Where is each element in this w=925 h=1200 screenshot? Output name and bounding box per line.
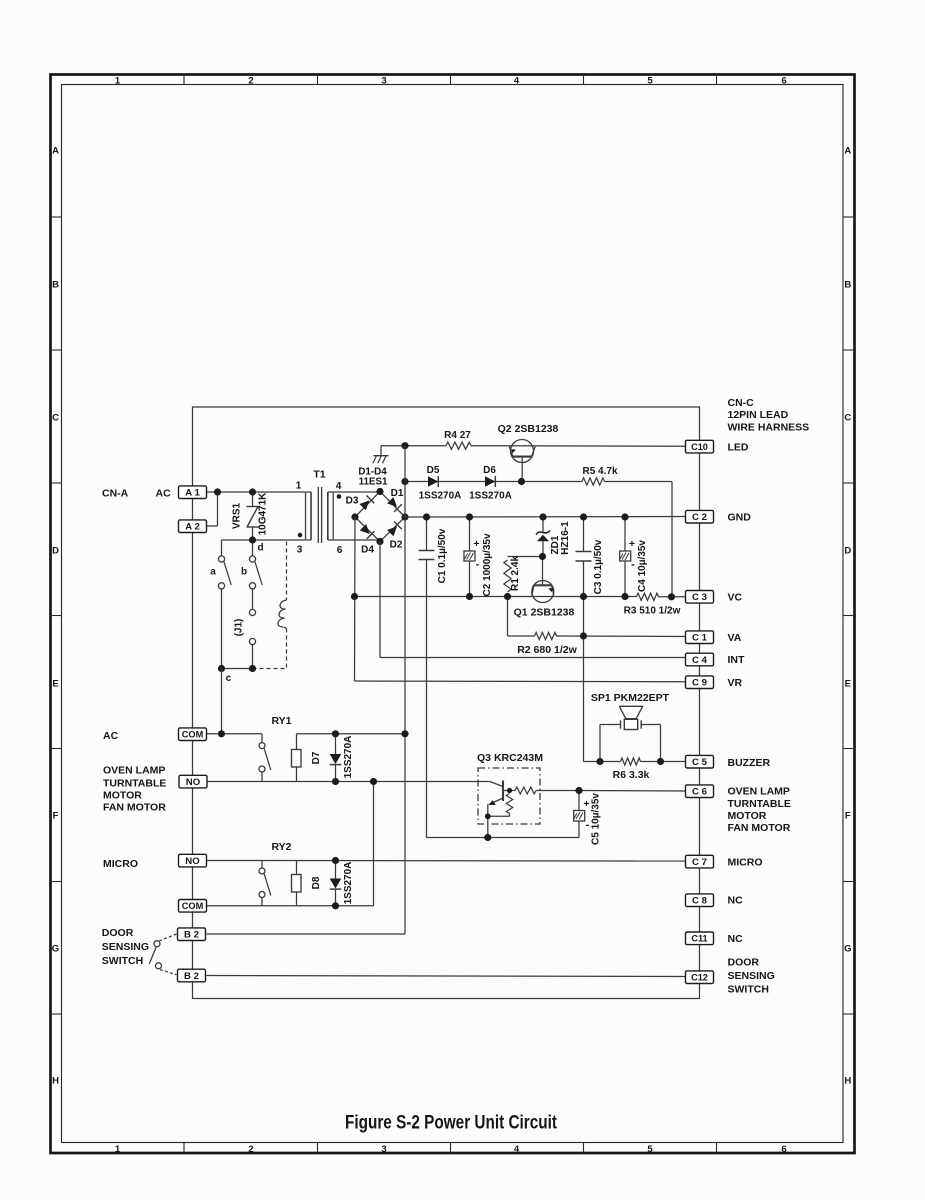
svg-text:5: 5 (647, 76, 653, 87)
svg-text:Q2 2SB1238: Q2 2SB1238 (498, 423, 559, 435)
svg-text:A: A (844, 146, 851, 157)
svg-text:C2 1000µ/35v: C2 1000µ/35v (482, 533, 493, 596)
svg-text:RY1: RY1 (271, 715, 291, 727)
svg-text:A 2: A 2 (185, 522, 200, 533)
svg-text:LED: LED (728, 441, 749, 453)
svg-text:OVEN LAMP: OVEN LAMP (103, 765, 165, 777)
svg-text:-: - (586, 819, 590, 831)
svg-text:H: H (844, 1076, 851, 1087)
svg-text:C 5: C 5 (692, 757, 708, 768)
svg-text:T1: T1 (313, 469, 325, 481)
svg-text:10G471K: 10G471K (258, 492, 269, 536)
svg-text:C3 0.1µ/50v: C3 0.1µ/50v (593, 539, 604, 594)
svg-text:HZ16-1: HZ16-1 (560, 521, 571, 555)
svg-text:b: b (241, 567, 247, 578)
svg-text:E: E (845, 679, 851, 690)
svg-text:C 1: C 1 (692, 633, 708, 644)
svg-text:DOOR: DOOR (728, 957, 760, 969)
svg-text:D2: D2 (390, 540, 403, 551)
svg-text:Figure S-2 Power Unit Circuit: Figure S-2 Power Unit Circuit (345, 1113, 558, 1134)
svg-text:C12: C12 (691, 973, 708, 983)
svg-text:+: + (583, 798, 589, 810)
svg-text:VC: VC (728, 592, 743, 604)
svg-text:a: a (210, 567, 216, 578)
svg-text:TURNTABLE: TURNTABLE (728, 798, 791, 810)
svg-text:CN-A: CN-A (102, 487, 129, 499)
svg-text:FAN MOTOR: FAN MOTOR (728, 822, 791, 834)
svg-text:C: C (844, 413, 851, 424)
svg-text:AC: AC (156, 487, 172, 499)
svg-text:c: c (226, 673, 232, 684)
svg-text:H: H (52, 1076, 59, 1087)
svg-text:SP1 PKM22EPT: SP1 PKM22EPT (591, 692, 670, 704)
svg-text:VA: VA (728, 632, 742, 644)
svg-text:R4 27: R4 27 (444, 430, 471, 441)
svg-text:F: F (53, 811, 59, 822)
svg-text:R6 3.3k: R6 3.3k (613, 769, 650, 781)
svg-text:D: D (844, 546, 851, 557)
svg-text:11ES1: 11ES1 (359, 476, 388, 487)
svg-text:Q1 2SB1238: Q1 2SB1238 (514, 607, 575, 619)
svg-text:C 3: C 3 (692, 592, 707, 603)
svg-text:6: 6 (337, 545, 343, 556)
svg-text:6: 6 (781, 1144, 786, 1155)
svg-text:4: 4 (514, 76, 520, 87)
svg-text:BUZZER: BUZZER (728, 757, 771, 769)
svg-text:INT: INT (728, 654, 746, 666)
svg-text:SWITCH: SWITCH (102, 955, 143, 967)
svg-text:C4 10µ/35v: C4 10µ/35v (637, 540, 648, 592)
svg-text:1SS270A: 1SS270A (469, 491, 512, 502)
svg-text:+: + (473, 538, 479, 550)
svg-text:C 9: C 9 (692, 678, 707, 689)
svg-text:1: 1 (115, 76, 121, 87)
svg-text:E: E (52, 679, 58, 690)
svg-text:NC: NC (728, 895, 744, 907)
svg-text:D7: D7 (311, 751, 322, 764)
svg-text:VRS1: VRS1 (232, 503, 243, 530)
svg-text:Q3 KRC243M: Q3 KRC243M (477, 752, 543, 764)
svg-text:MOTOR: MOTOR (728, 810, 767, 822)
svg-text:1SS270A: 1SS270A (343, 736, 354, 779)
svg-text:R3 510 1/2w: R3 510 1/2w (624, 606, 681, 617)
svg-text:3: 3 (381, 76, 386, 87)
svg-text:MICRO: MICRO (728, 856, 763, 868)
svg-text:COM: COM (182, 901, 204, 911)
svg-text:A: A (52, 146, 59, 157)
svg-text:D8: D8 (311, 876, 322, 889)
svg-text:C: C (52, 413, 59, 424)
svg-text:G: G (52, 944, 59, 955)
svg-text:NO: NO (185, 856, 200, 867)
svg-text:d: d (257, 543, 263, 554)
svg-text:+: + (629, 538, 635, 550)
svg-text:AC: AC (103, 730, 119, 742)
svg-text:VR: VR (728, 677, 743, 689)
svg-text:4: 4 (514, 1144, 520, 1155)
svg-text:TURNTABLE: TURNTABLE (103, 778, 166, 790)
svg-text:2: 2 (248, 1144, 253, 1155)
svg-text:(J1): (J1) (234, 619, 245, 637)
svg-text:C 7: C 7 (692, 857, 707, 868)
svg-text:3: 3 (381, 1144, 386, 1155)
svg-text:C 8: C 8 (692, 896, 708, 907)
svg-text:A 1: A 1 (185, 488, 200, 499)
svg-text:SWITCH: SWITCH (728, 984, 769, 996)
svg-text:NC: NC (728, 933, 744, 945)
svg-text:C10: C10 (691, 442, 708, 452)
svg-text:FAN MOTOR: FAN MOTOR (103, 802, 166, 814)
svg-text:1: 1 (115, 1144, 121, 1155)
svg-text:6: 6 (781, 76, 786, 87)
svg-text:G: G (844, 944, 851, 955)
svg-text:SENSING: SENSING (102, 941, 149, 953)
svg-text:R5 4.7k: R5 4.7k (582, 466, 617, 477)
svg-text:C 4: C 4 (692, 655, 708, 666)
svg-text:D4: D4 (361, 545, 374, 556)
svg-text:C 2: C 2 (692, 512, 707, 523)
svg-text:B 2: B 2 (184, 971, 199, 982)
svg-text:NO: NO (186, 777, 201, 788)
svg-text:B: B (844, 280, 851, 291)
svg-text:D5: D5 (427, 465, 440, 476)
svg-text:F: F (845, 811, 851, 822)
svg-text:-: - (476, 559, 480, 571)
svg-text:4: 4 (336, 481, 342, 492)
svg-text:1SS270A: 1SS270A (419, 491, 462, 502)
svg-text:C1 0.1µ/50v: C1 0.1µ/50v (437, 528, 448, 583)
svg-text:3: 3 (297, 545, 303, 556)
svg-text:C5 10µ/35v: C5 10µ/35v (591, 793, 602, 845)
svg-text:D: D (52, 546, 59, 557)
svg-text:D1: D1 (391, 488, 404, 499)
svg-text:R2 680 1/2w: R2 680 1/2w (517, 644, 577, 656)
svg-text:SENSING: SENSING (728, 970, 775, 982)
svg-text:-: - (631, 559, 635, 571)
svg-text:12PIN LEAD: 12PIN LEAD (728, 409, 789, 421)
svg-text:D3: D3 (346, 496, 359, 507)
svg-text:COM: COM (182, 730, 204, 740)
svg-text:1SS270A: 1SS270A (343, 862, 354, 905)
svg-text:GND: GND (728, 511, 752, 523)
svg-text:R1 2.4k: R1 2.4k (510, 556, 521, 591)
svg-text:B 2: B 2 (184, 930, 199, 941)
svg-text:B: B (52, 280, 59, 291)
svg-text:D6: D6 (483, 465, 496, 476)
svg-text:1: 1 (296, 481, 302, 492)
svg-text:2: 2 (248, 76, 253, 87)
svg-text:OVEN LAMP: OVEN LAMP (728, 785, 790, 797)
svg-text:MICRO: MICRO (103, 858, 138, 870)
svg-text:DOOR: DOOR (102, 927, 134, 939)
svg-text:CN-C: CN-C (728, 397, 755, 409)
svg-text:5: 5 (647, 1144, 653, 1155)
svg-text:WIRE HARNESS: WIRE HARNESS (728, 421, 810, 433)
svg-text:RY2: RY2 (271, 841, 291, 853)
svg-text:MOTOR: MOTOR (103, 790, 142, 802)
svg-text:C11: C11 (691, 934, 707, 944)
svg-text:C 6: C 6 (692, 787, 707, 798)
